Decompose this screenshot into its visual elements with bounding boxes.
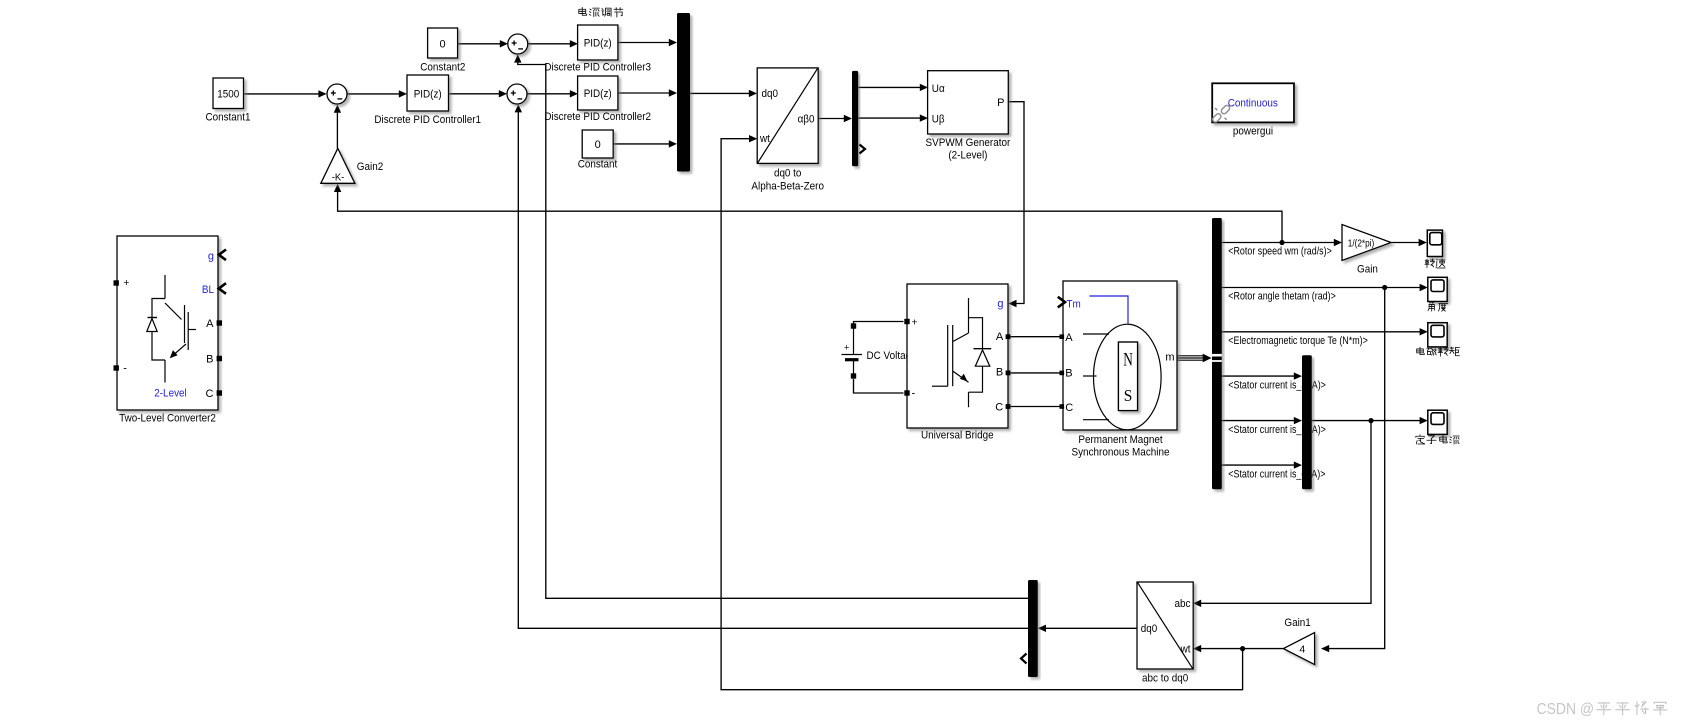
svg-text:PID(z): PID(z) [414, 89, 442, 101]
svg-text:-: - [912, 388, 916, 400]
svg-text:Discrete PID Controller3: Discrete PID Controller3 [544, 62, 651, 74]
svg-text:Gain: Gain [1357, 264, 1378, 276]
svg-text:<Rotor angle thetam (rad)>: <Rotor angle thetam (rad)> [1228, 291, 1336, 303]
svg-text:S: S [1124, 386, 1133, 405]
svg-text:BL: BL [202, 284, 214, 296]
svg-text:N: N [1123, 350, 1133, 371]
svg-text:Uβ: Uβ [932, 113, 945, 125]
svg-text:(2-Level): (2-Level) [948, 150, 987, 162]
svg-text:Uα: Uα [932, 83, 945, 95]
svg-text:Gain1: Gain1 [1284, 617, 1310, 629]
svg-text:abc: abc [1175, 598, 1191, 610]
svg-text:Synchronous Machine: Synchronous Machine [1072, 447, 1170, 459]
svg-text:Discrete PID Controller1: Discrete PID Controller1 [374, 114, 481, 126]
svg-text:wt: wt [1180, 643, 1191, 655]
svg-text:0: 0 [440, 39, 446, 51]
svg-text:PID(z): PID(z) [584, 88, 612, 100]
svg-text:Continuous: Continuous [1228, 97, 1279, 109]
svg-text:dq0 to: dq0 to [774, 167, 802, 179]
svg-text:<Electromagnetic torque Te (N*: <Electromagnetic torque Te (N*m)> [1228, 335, 1368, 347]
svg-text:+: + [912, 317, 918, 329]
svg-text:Discrete PID Controller2: Discrete PID Controller2 [544, 111, 651, 123]
svg-text:A: A [206, 318, 214, 330]
svg-text:C: C [995, 402, 1003, 414]
svg-text:A: A [1065, 332, 1073, 344]
svg-text:B: B [206, 353, 213, 365]
svg-text:αβ0: αβ0 [798, 114, 815, 126]
svg-text:+: + [844, 343, 849, 353]
svg-text:powergui: powergui [1233, 125, 1273, 137]
svg-text:Gain2: Gain2 [357, 161, 383, 173]
svg-text:g: g [208, 250, 214, 262]
svg-text:C: C [1065, 402, 1073, 414]
svg-text:PID(z): PID(z) [584, 38, 612, 50]
svg-text:wt: wt [759, 133, 770, 145]
svg-text:1/(2*pi): 1/(2*pi) [1348, 239, 1375, 250]
svg-text:abc to dq0: abc to dq0 [1142, 672, 1188, 684]
svg-text:-K-: -K- [332, 172, 345, 184]
svg-text:1500: 1500 [217, 89, 239, 101]
svg-text:Universal Bridge: Universal Bridge [921, 430, 994, 442]
svg-text:Tm: Tm [1067, 299, 1081, 311]
svg-text:0: 0 [595, 139, 601, 151]
svg-text:SVPWM Generator: SVPWM Generator [926, 137, 1011, 149]
svg-text:Constant2: Constant2 [420, 62, 465, 74]
svg-text:A: A [996, 331, 1004, 343]
svg-text:Permanent Magnet: Permanent Magnet [1078, 434, 1162, 446]
svg-text:Two-Level Converter2: Two-Level Converter2 [119, 413, 216, 425]
svg-text:+: + [123, 277, 129, 289]
svg-text:B: B [1065, 368, 1072, 380]
svg-text:Constant1: Constant1 [205, 112, 250, 124]
svg-text:4: 4 [1299, 643, 1305, 655]
svg-text:dq0: dq0 [1141, 623, 1158, 635]
svg-text:g: g [997, 298, 1003, 310]
svg-text:P: P [997, 97, 1004, 109]
svg-text:dq0: dq0 [762, 88, 779, 100]
svg-text:-: - [123, 363, 127, 375]
svg-text:<Rotor speed wm (rad/s)>: <Rotor speed wm (rad/s)> [1228, 246, 1332, 258]
svg-text:Alpha-Beta-Zero: Alpha-Beta-Zero [751, 180, 824, 192]
svg-text:Constant: Constant [578, 159, 618, 171]
svg-text:2-Level: 2-Level [154, 388, 187, 400]
svg-text:B: B [996, 367, 1003, 379]
svg-text:CSDN @: CSDN @ [1537, 701, 1595, 718]
svg-text:C: C [206, 388, 214, 400]
svg-text:m: m [1165, 352, 1174, 364]
